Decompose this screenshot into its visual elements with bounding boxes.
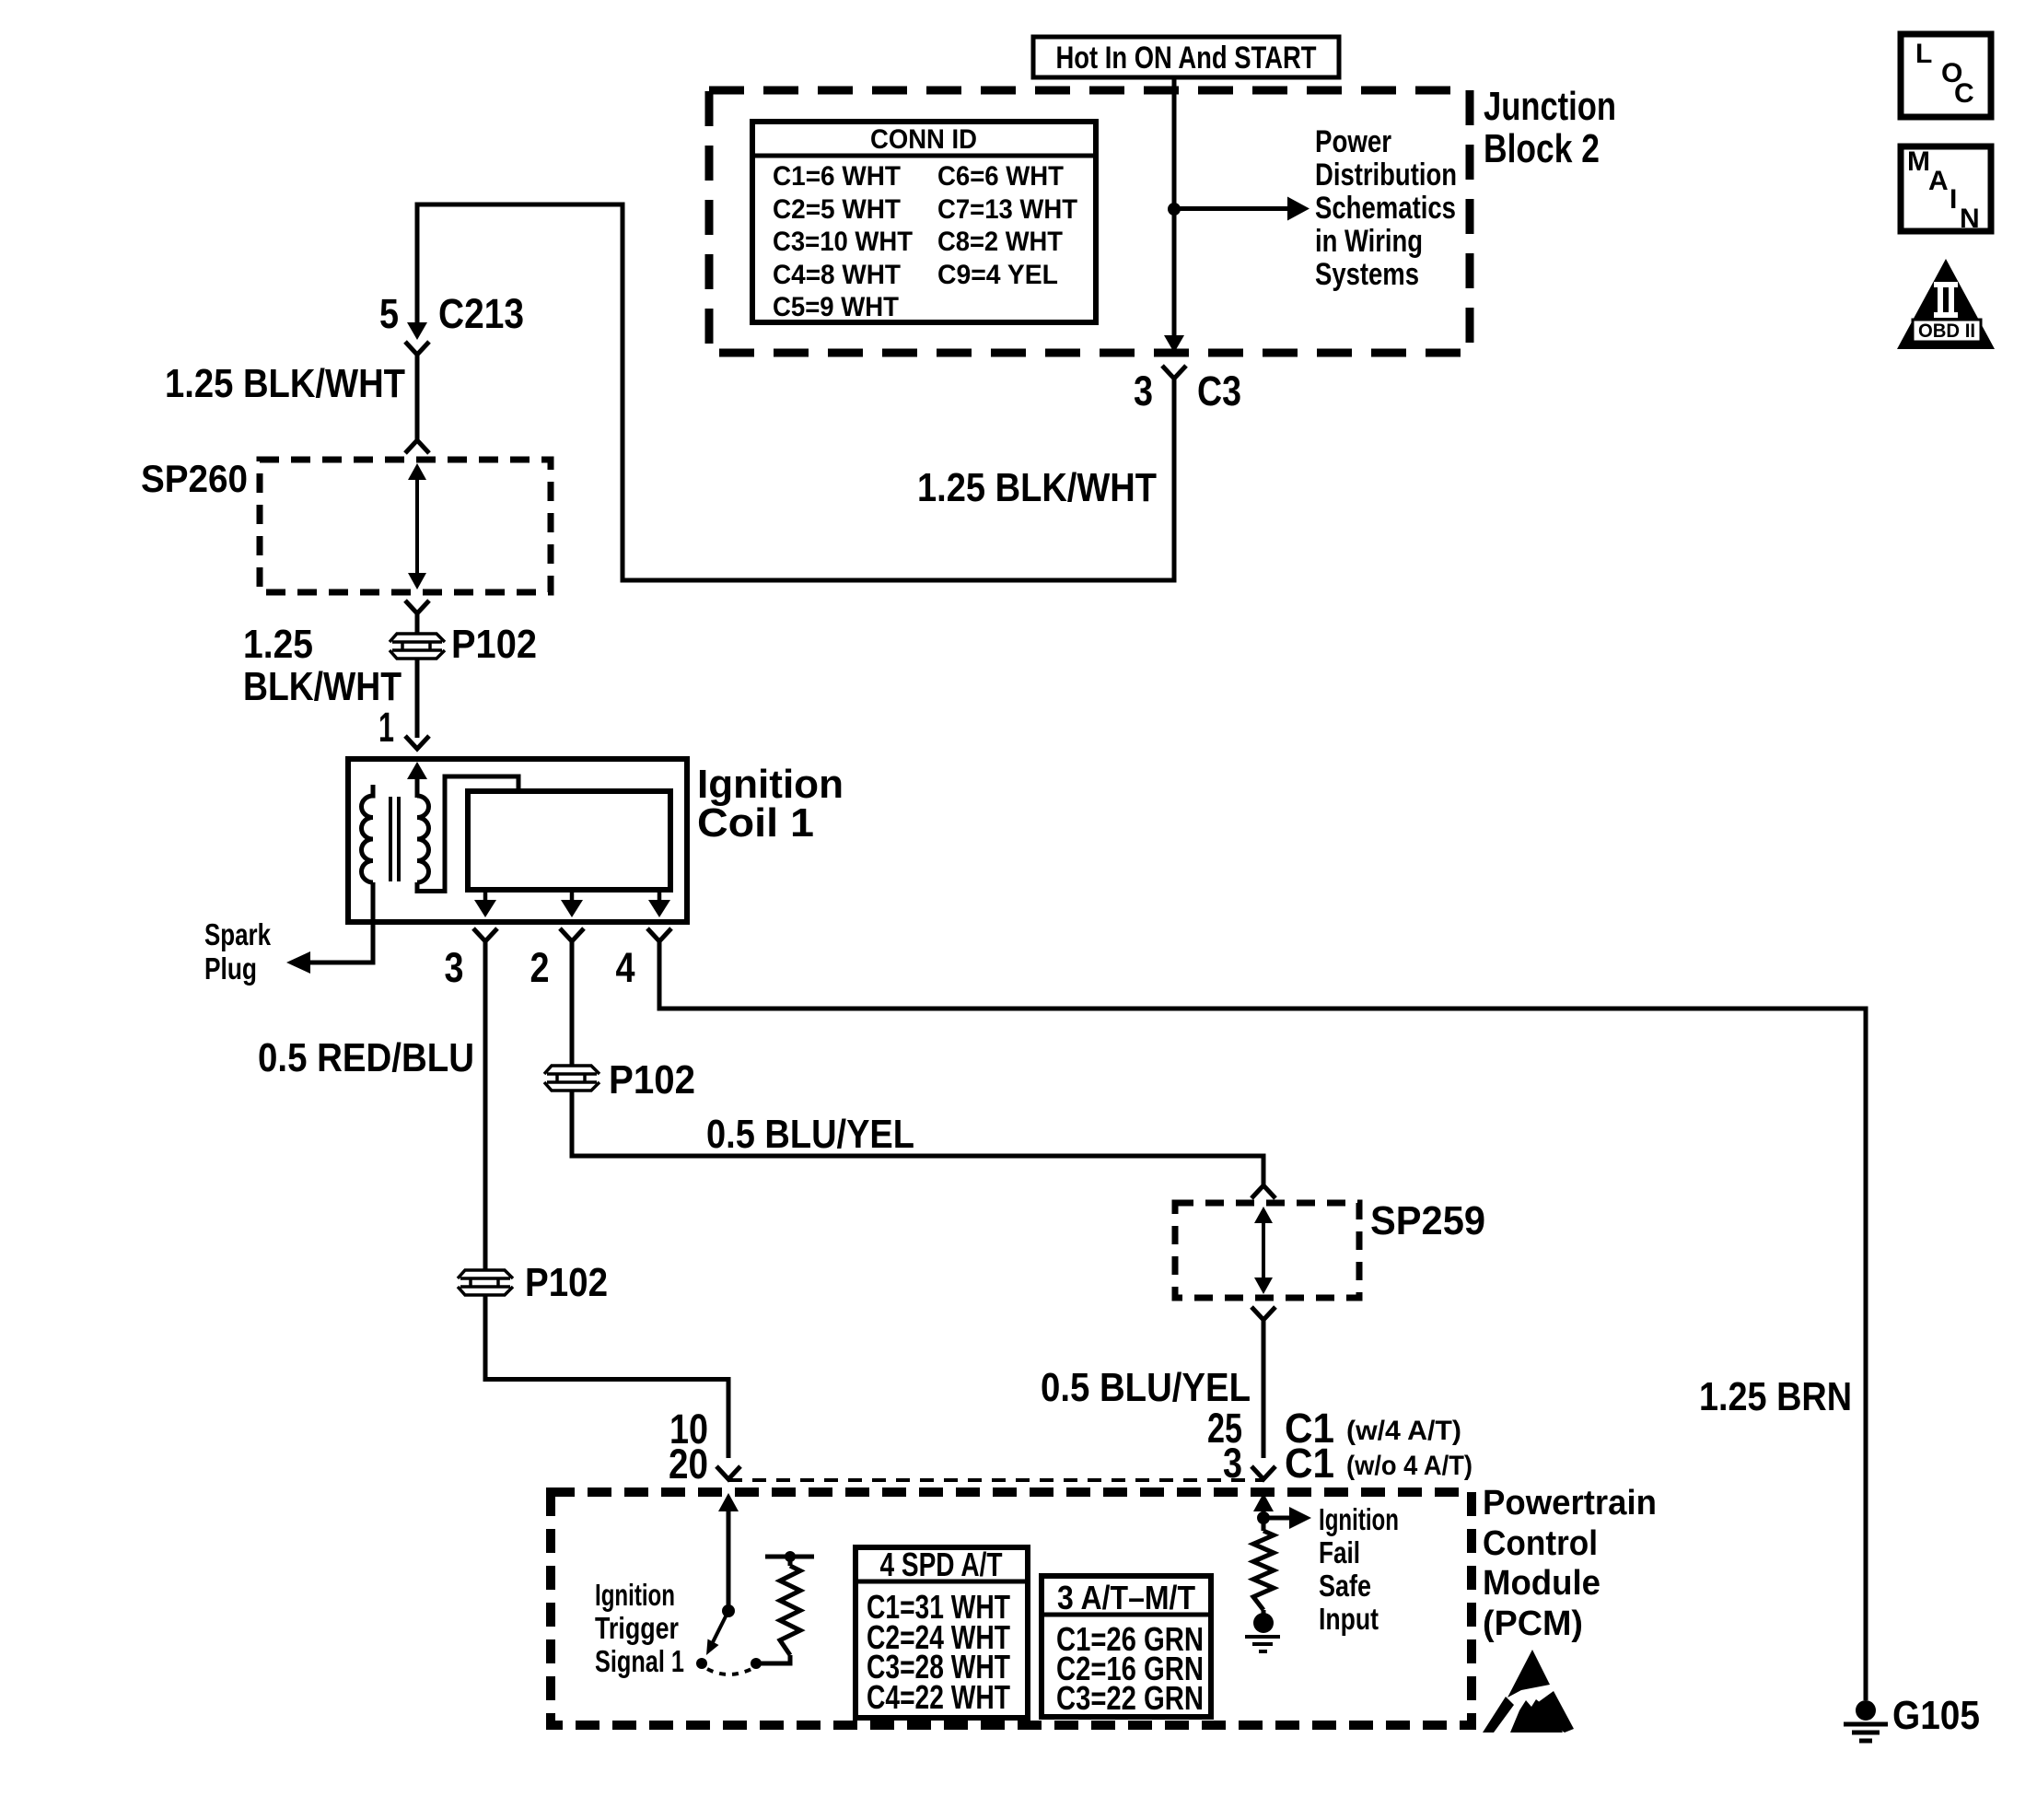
svg-text:Safe: Safe: [1319, 1569, 1371, 1603]
svg-text:C2=5 WHT: C2=5 WHT: [773, 194, 901, 225]
svg-text:0.5 RED/BLU: 0.5 RED/BLU: [258, 1035, 474, 1080]
switch arm with arrowhead: [713, 1611, 728, 1642]
connector C3 male arrow: [1164, 335, 1184, 353]
wire P102 to PCM pin 10/20: [485, 1295, 728, 1458]
ground G105 symbol: [1856, 1700, 1876, 1721]
svg-text:Block 2: Block 2: [1484, 126, 1600, 171]
wire C3 down to corner: [1172, 379, 1177, 583]
svg-text:SP259: SP259: [1370, 1198, 1485, 1243]
svg-text:Input: Input: [1319, 1602, 1379, 1636]
PCM pin 25/3 female chevron: [1251, 1466, 1275, 1479]
connector C3 female chevron: [1162, 366, 1186, 379]
svg-text:4 SPD A/T: 4 SPD A/T: [880, 1546, 1003, 1583]
wire contact to resistor: [756, 1655, 790, 1663]
inline connector P102 (trigger wire): [458, 1270, 513, 1295]
resistor bottom lead: [1262, 1610, 1266, 1614]
ignition coil internal wire primary to module: [417, 776, 518, 892]
svg-text:Fail: Fail: [1319, 1535, 1360, 1569]
powertrain control module dashed box: [551, 1492, 1472, 1725]
wire C213 to splice SP260: [415, 355, 420, 440]
switch contact node right: [751, 1658, 762, 1669]
svg-text:Powertrain: Powertrain: [1483, 1484, 1657, 1522]
inline connector P102 (ignition feed): [390, 634, 445, 659]
svg-text:Systems: Systems: [1315, 257, 1419, 292]
coil pin 3 female chevron: [473, 928, 497, 941]
switch pivot node: [722, 1604, 735, 1617]
svg-text:in Wiring: in Wiring: [1315, 224, 1423, 259]
svg-text:G105: G105: [1892, 1693, 1980, 1738]
svg-text:A: A: [1928, 166, 1949, 196]
fail safe ground dot: [1253, 1613, 1274, 1633]
module pin stubs with arrows: [483, 890, 488, 902]
PCM pin 10/20 female chevron: [716, 1466, 740, 1479]
svg-text:P102: P102: [525, 1260, 608, 1305]
junction block 2 dashed box: [709, 90, 1470, 353]
svg-text:C5=9 WHT: C5=9 WHT: [773, 292, 899, 322]
junction node in junction block 2: [1168, 203, 1181, 216]
svg-text:Plug: Plug: [204, 951, 257, 986]
svg-text:(w/o 4 A/T): (w/o 4 A/T): [1346, 1451, 1472, 1481]
3 A/T-M/T table: [1042, 1576, 1211, 1717]
svg-text:3: 3: [1134, 367, 1153, 414]
svg-text:(w/4 A/T): (w/4 A/T): [1346, 1416, 1461, 1446]
svg-text:OBD II: OBD II: [1918, 321, 1975, 342]
fail safe internal ground symbol: [1245, 1635, 1280, 1639]
svg-text:C7=13 WHT: C7=13 WHT: [937, 194, 1077, 225]
svg-text:SP260: SP260: [141, 457, 248, 500]
svg-text:5: 5: [379, 290, 399, 337]
wire P102 to ignition coil pin 1: [415, 659, 420, 738]
splice SP259 internal arrows: [1262, 1216, 1265, 1285]
svg-text:N: N: [1960, 204, 1980, 234]
MAIN reference symbol: [1901, 146, 1991, 231]
svg-text:Trigger: Trigger: [595, 1611, 679, 1645]
svg-text:Junction: Junction: [1484, 84, 1616, 129]
coil pin 2 female chevron: [560, 928, 584, 941]
splice SP260 top female chevron: [405, 440, 429, 453]
OBD II symbol: [1897, 259, 1995, 349]
svg-text:Coil 1: Coil 1: [697, 800, 814, 846]
wire horizontal to left: [621, 578, 1177, 583]
ignition coil primary winding: [417, 796, 428, 882]
svg-text:C: C: [1954, 78, 1974, 109]
fail safe junction node: [1257, 1511, 1270, 1524]
LOC reference symbol: [1901, 34, 1991, 117]
svg-text:1: 1: [378, 704, 394, 751]
svg-text:P102: P102: [609, 1057, 695, 1102]
resistor (ignition fail safe): [1253, 1531, 1274, 1610]
wire to power distribution note arrow: [1179, 206, 1287, 211]
svg-text:3: 3: [445, 944, 464, 991]
svg-text:C8=2 WHT: C8=2 WHT: [937, 227, 1063, 257]
ignition coil pin 1 internal arrow: [415, 778, 420, 798]
switch dashed travel arc: [707, 1669, 751, 1674]
svg-text:C4=8 WHT: C4=8 WHT: [773, 260, 901, 290]
inline connector P102 (fail safe wire): [544, 1066, 599, 1091]
resistor top junction node: [785, 1551, 796, 1562]
svg-text:Distribution: Distribution: [1315, 157, 1457, 192]
PCM ignition fail safe internal arrow: [1262, 1511, 1266, 1531]
svg-text:3 A/T–M/T: 3 A/T–M/T: [1057, 1579, 1195, 1616]
PCM ignition trigger internal arrow: [727, 1511, 731, 1611]
svg-text:P102: P102: [451, 622, 537, 667]
svg-text:C6=6 WHT: C6=6 WHT: [937, 161, 1064, 192]
svg-text:Schematics: Schematics: [1315, 191, 1456, 226]
spark plug arrow: [286, 951, 310, 974]
svg-text:0.5 BLU/YEL: 0.5 BLU/YEL: [1041, 1365, 1251, 1410]
svg-text:Hot In ON And START: Hot In ON And START: [1056, 41, 1317, 76]
svg-text:1.25 BLK/WHT: 1.25 BLK/WHT: [165, 361, 405, 406]
svg-text:C3=10 WHT: C3=10 WHT: [773, 227, 913, 257]
svg-text:C3=22 GRN: C3=22 GRN: [1056, 1679, 1204, 1717]
svg-text:Ignition: Ignition: [1319, 1502, 1399, 1536]
svg-text:I: I: [1950, 184, 1957, 215]
svg-text:Ignition: Ignition: [595, 1578, 675, 1612]
wire SP259 to PCM pin 25/3: [1262, 1320, 1266, 1458]
svg-text:20: 20: [669, 1441, 708, 1487]
svg-text:2: 2: [530, 944, 550, 991]
splice SP260 dashed box: [260, 460, 551, 592]
connector C213 female chevron: [405, 342, 429, 355]
svg-text:CONN ID: CONN ID: [870, 124, 977, 155]
coil pin 4 female chevron: [647, 928, 671, 941]
wire SP260 to inline connector P102: [415, 613, 420, 634]
wire down to connector C213: [415, 204, 420, 324]
splice SP259 dashed box: [1175, 1203, 1359, 1298]
ignition coil 1 box: [348, 759, 687, 922]
switch contact node left: [696, 1658, 707, 1669]
splice SP260 bottom female chevron: [405, 601, 429, 613]
ignition coil pin 1 female chevron: [405, 736, 429, 749]
svg-text:1.25 BRN: 1.25 BRN: [1699, 1374, 1852, 1419]
wire secondary winding to spark plug: [310, 882, 373, 962]
CONN ID table: [752, 122, 1096, 322]
svg-text:BLK/WHT: BLK/WHT: [243, 664, 402, 709]
svg-text:0.5 BLU/YEL: 0.5 BLU/YEL: [706, 1112, 914, 1157]
wire P102 to splice SP259: [572, 1091, 1263, 1185]
wire junction dot to block pin 3: [1172, 209, 1177, 337]
PCM connector body thin dashed line: [728, 1478, 1263, 1482]
wire horizontal at top: [415, 203, 625, 207]
ignition coil core: [389, 797, 392, 881]
wire coil pin 4 to ground G105: [659, 941, 1866, 1700]
splice SP259 top female chevron: [1251, 1185, 1275, 1198]
svg-text:Power: Power: [1315, 124, 1391, 159]
ignition coil secondary winding: [361, 785, 373, 882]
svg-text:L: L: [1915, 39, 1932, 69]
svg-text:C1=6 WHT: C1=6 WHT: [773, 161, 901, 192]
wire to fail safe arrow: [1268, 1516, 1289, 1521]
connector C213 male arrow: [407, 322, 427, 340]
svg-text:C1: C1: [1285, 1440, 1334, 1487]
svg-text:M: M: [1907, 146, 1930, 177]
arrowhead to power distribution note: [1287, 197, 1309, 221]
svg-text:Control: Control: [1483, 1524, 1598, 1563]
svg-text:C213: C213: [438, 290, 524, 337]
svg-text:C3: C3: [1197, 367, 1241, 414]
ignition coil internal module box: [468, 791, 670, 890]
wire coil pin 2 down: [570, 941, 575, 1066]
splice SP259 bottom female chevron: [1251, 1307, 1275, 1320]
svg-text:4: 4: [616, 944, 635, 991]
wire coil pin 3 down: [483, 941, 488, 1270]
resistor top rail: [765, 1555, 814, 1559]
svg-text:1.25: 1.25: [243, 622, 313, 667]
wire vertical up: [621, 204, 625, 583]
svg-text:C4=22 WHT: C4=22 WHT: [867, 1678, 1010, 1716]
svg-text:Module: Module: [1483, 1564, 1600, 1603]
svg-text:Spark: Spark: [204, 917, 272, 951]
resistor (ignition trigger pull-up): [780, 1566, 800, 1655]
power label box Hot In ON And START: [1033, 37, 1339, 77]
ESD sensitive device symbol: [1483, 1650, 1574, 1732]
resistor top lead: [788, 1557, 793, 1566]
arrowhead to fail safe label: [1289, 1507, 1311, 1529]
wire from Hot In ON And START down into Junction Block 2: [1172, 77, 1177, 209]
splice SP260 internal arrows: [415, 473, 419, 578]
svg-text:1.25 BLK/WHT: 1.25 BLK/WHT: [917, 465, 1157, 510]
4 SPD A/T table: [856, 1547, 1028, 1718]
svg-text:Signal 1: Signal 1: [595, 1644, 684, 1678]
svg-text:(PCM): (PCM): [1483, 1604, 1583, 1643]
svg-text:C9=4 YEL: C9=4 YEL: [937, 260, 1058, 290]
